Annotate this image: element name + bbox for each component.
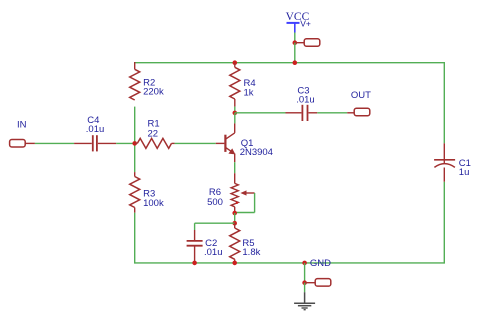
label IN [17, 119, 27, 130]
svg-text:.01u: .01u [86, 124, 105, 135]
port VCC [304, 39, 320, 47]
label C3 value [296, 86, 315, 106]
resistor R1 [137, 138, 171, 148]
wire R1 to Q1 base [172, 142, 225, 144]
svg-text:22: 22 [148, 128, 159, 139]
label C2 value [204, 238, 223, 258]
supply V+ symbol [287, 23, 300, 33]
wire C3 to OUT [309, 112, 355, 114]
capacitor C2 [187, 241, 203, 246]
svg-text:1k: 1k [244, 88, 254, 99]
resistor R5 [230, 228, 240, 259]
node R4 top [233, 60, 238, 65]
svg-text:.01u: .01u [296, 94, 315, 105]
wire left column lower [134, 143, 136, 263]
port GND [315, 279, 331, 287]
wire bottom rail [135, 262, 445, 264]
wire collector to C3 [235, 112, 302, 114]
label Q1 value [240, 138, 273, 158]
wire emitter to R6 [234, 162, 236, 183]
svg-text:1u: 1u [459, 167, 470, 178]
node VCC stub [293, 40, 298, 45]
svg-text:1.8k: 1.8k [242, 247, 260, 258]
svg-text:.01u: .01u [204, 247, 223, 258]
port OUT [354, 108, 370, 116]
wire tee to R5 [234, 223, 236, 228]
wire C2 bottom lead [194, 246, 196, 263]
node GND rail [302, 261, 307, 266]
node R5 bottom [232, 261, 237, 266]
node base-row junction [132, 141, 137, 146]
wire R4 top lead [234, 63, 236, 68]
capacitor C1 [434, 160, 455, 168]
wiper arrow R6 [240, 190, 254, 195]
node collector tee [233, 111, 238, 116]
resistor R6 [231, 183, 238, 206]
transistor Q1 [225, 123, 235, 162]
wire R5 bottom lead [234, 259, 236, 263]
node VCC rail [293, 60, 298, 65]
svg-text:500: 500 [207, 197, 223, 208]
node GND stub [302, 280, 307, 285]
label GND [310, 258, 331, 269]
wire IN to C4 [26, 142, 92, 144]
wire left column upper [134, 62, 136, 143]
wire VCC to rail [294, 43, 296, 63]
wire tee to C2 [195, 223, 235, 240]
label C1 value [459, 158, 471, 178]
svg-text:GND: GND [310, 258, 331, 269]
svg-text:IN: IN [17, 119, 27, 130]
label R1 value [148, 119, 160, 140]
label VCC [286, 11, 310, 23]
wire GND to symbol [304, 283, 306, 293]
node R6 wiper mark [236, 202, 238, 204]
resistor R3 [130, 177, 140, 208]
resistor R2 [130, 69, 140, 100]
wire R4 to collector node [234, 99, 236, 113]
wire right column [443, 62, 445, 264]
node C2 bottom [192, 261, 197, 266]
node emitter tee [232, 221, 237, 226]
label R2 value [143, 77, 164, 97]
label C4 value [86, 115, 105, 135]
label R4 value [244, 78, 256, 98]
ground symbol [294, 292, 315, 310]
resistor R4 [230, 67, 240, 99]
port IN [10, 139, 26, 147]
node R6 bottom [232, 211, 237, 216]
svg-text:100k: 100k [143, 198, 164, 209]
wire wiper loop [235, 193, 255, 213]
wire collector node to Q1 [234, 113, 236, 124]
wire R6 bottom lead [234, 207, 236, 213]
svg-text:2N3904: 2N3904 [240, 147, 273, 158]
wire top rail [135, 62, 445, 64]
wire GND drop [304, 263, 306, 283]
capacitor C3 [302, 105, 307, 121]
capacitor C4 [93, 135, 97, 151]
label R3 value [143, 189, 164, 209]
label R5 value [242, 238, 260, 258]
svg-text:V+: V+ [300, 19, 311, 29]
wire GND stub [305, 282, 316, 284]
wire VCC stub [295, 42, 305, 44]
label OUT [351, 90, 371, 101]
label R6 value [207, 187, 223, 208]
svg-text:220k: 220k [143, 87, 164, 98]
label V+ [300, 19, 311, 29]
wire node to R1 [135, 142, 138, 144]
wire R6 to emitter tee [234, 213, 236, 223]
svg-text:OUT: OUT [351, 90, 371, 101]
wire V+ to node [294, 33, 296, 43]
wire C4 to node [98, 142, 135, 144]
